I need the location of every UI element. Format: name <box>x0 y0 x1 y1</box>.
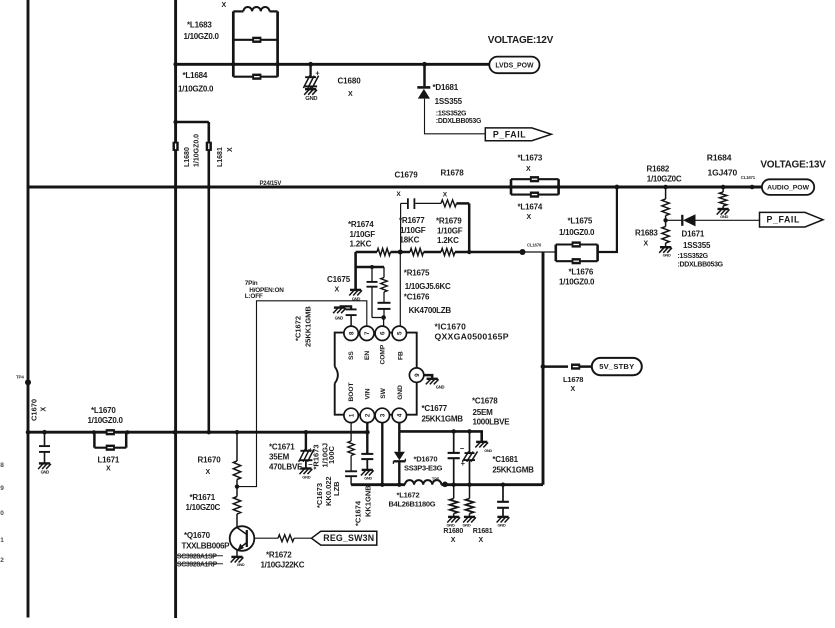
svg-text:1/10GZ0.0: 1/10GZ0.0 <box>559 278 595 287</box>
ground at pin9 <box>427 378 438 380</box>
svg-text:KK1GNB: KK1GNB <box>363 485 372 517</box>
resistor R1675 vertical <box>381 278 387 293</box>
wire Q1670 emitter to ground <box>236 550 238 557</box>
svg-text:X: X <box>443 192 448 199</box>
svg-text:R1684: R1684 <box>707 153 732 163</box>
svg-text:1SS355: 1SS355 <box>683 241 711 250</box>
svg-text:470LBVE: 470LBVE <box>269 463 303 472</box>
resistor R1670 vertical (X) <box>236 432 238 461</box>
svg-text::1SS352G: :1SS352G <box>436 111 467 118</box>
diode D1681 (cathode up) <box>417 86 430 89</box>
ground below C1671 <box>300 467 311 469</box>
ground below C1681 <box>497 516 508 518</box>
node dot 5V_STBY tap <box>541 364 546 369</box>
svg-text:GND: GND <box>302 475 310 480</box>
svg-text:P_FAIL: P_FAIL <box>767 215 800 225</box>
svg-text:25KK1GMB: 25KK1GMB <box>422 414 464 423</box>
svg-text:1/10GF: 1/10GF <box>350 230 376 239</box>
node dot R1670/R1671/EN junction <box>235 484 239 488</box>
svg-text:1/10GZ0C: 1/10GZ0C <box>186 503 221 512</box>
wire stub from x=175.6 to L1680/L1681 ladder top <box>176 121 209 124</box>
wire L1683 block right bar <box>276 11 279 76</box>
ground (slashed) for C1672 <box>334 306 345 308</box>
svg-text:1/10GF: 1/10GF <box>437 227 463 236</box>
wire pin4 node down to D1670 <box>398 431 400 451</box>
ferrite bead L1673 top <box>511 178 559 180</box>
svg-text:X: X <box>526 166 531 173</box>
node junction dot x=616.9 on P24 <box>615 185 620 190</box>
svg-text:5V_STBY: 5V_STBY <box>599 362 634 371</box>
ferrite bead L1681 on x=208.8 rail <box>206 142 212 151</box>
svg-text:TXXLBB006P: TXXLBB006P <box>182 542 231 551</box>
resistor R1674 <box>377 249 391 256</box>
wire C1673 to SW output bus <box>350 477 352 485</box>
svg-text:R1670: R1670 <box>198 456 222 465</box>
svg-text:*R1674: *R1674 <box>348 220 374 229</box>
wire D1671 anode to P_FAIL right <box>696 219 760 221</box>
wire EN control: pin7 up, left, down to R1670/R1671 junction <box>238 301 367 487</box>
svg-text:1: 1 <box>348 413 355 417</box>
ground below R1683 <box>660 246 671 248</box>
ground below R1681 <box>464 516 475 518</box>
svg-text:7: 7 <box>364 331 371 335</box>
capacitor C1673 plates <box>345 470 357 472</box>
svg-text:*R1679: *R1679 <box>436 217 462 226</box>
svg-text:18KC: 18KC <box>400 236 420 245</box>
svg-text:L1681: L1681 <box>217 147 224 167</box>
wire thick corner from R1678 down to feedback line <box>457 202 470 205</box>
diode D1671 (cathode left) <box>681 215 683 226</box>
wire to L1678 bead <box>543 365 568 368</box>
ferrite bead L1675 top <box>556 243 598 245</box>
svg-text:*R1673: *R1673 <box>311 444 320 469</box>
node dots L1673 block <box>509 185 513 189</box>
inductor coil (top of L1683 block) <box>233 10 243 12</box>
svg-text:VIN: VIN <box>364 388 371 399</box>
svg-text:1GJ470: 1GJ470 <box>708 168 738 178</box>
svg-text:1SS355: 1SS355 <box>435 97 463 106</box>
wire thick from feedback line left end down (C1675 stub) <box>354 252 357 289</box>
ground below R1680 <box>448 516 459 518</box>
svg-text:GND: GND <box>463 522 471 527</box>
svg-text:1/10GZ0.0: 1/10GZ0.0 <box>88 416 124 425</box>
svg-text:0: 0 <box>0 510 4 517</box>
wire right bus y=431.4 to GND bend <box>399 431 481 441</box>
net flag LVDS_POW stadium <box>489 57 539 74</box>
wire branch B down from stub <box>383 267 385 278</box>
op-amp/regulator IC U1670 body <box>335 333 417 415</box>
svg-text:C1675: C1675 <box>327 275 351 284</box>
svg-text:P_FAIL: P_FAIL <box>493 129 526 139</box>
wire feedback line continue to CL1670 node <box>455 251 523 254</box>
svg-text::DDXLBB053G: :DDXLBB053G <box>678 262 724 269</box>
svg-text:X: X <box>335 287 340 294</box>
svg-text:*C1672: *C1672 <box>294 316 303 341</box>
wire 12V top horizontal line y=64.3 <box>176 63 491 66</box>
svg-text:X: X <box>396 191 401 198</box>
ground below R1684 <box>718 208 729 210</box>
ferrite bead L1676 bottom <box>556 260 598 262</box>
ground below C1670 <box>39 462 50 464</box>
svg-text:P24/15V: P24/15V <box>260 181 282 187</box>
svg-text:X: X <box>644 241 649 248</box>
svg-text:*C1678: *C1678 <box>472 397 498 406</box>
capacitor C1672 on SS pin8 <box>350 316 352 327</box>
node dot R1684 top <box>721 185 726 190</box>
svg-text:*C1677: *C1677 <box>422 404 448 413</box>
node dots C1677/C1678 bottoms <box>452 483 456 487</box>
ferrite bead L1683 <box>233 39 277 41</box>
svg-text:*C1681: *C1681 <box>492 455 518 464</box>
pin 8 circle <box>344 326 358 340</box>
pin 2 circle <box>360 408 374 422</box>
wire vertical left rail x=28 <box>27 0 30 618</box>
svg-text:1/10GF: 1/10GF <box>400 226 426 235</box>
wire down to D1681 <box>423 64 426 86</box>
svg-text:3: 3 <box>380 413 387 417</box>
svg-text:8: 8 <box>0 462 4 469</box>
capacitor C1670 to ground <box>44 432 46 445</box>
svg-text:GND: GND <box>436 385 445 390</box>
resistor R1683 vertical <box>665 220 667 226</box>
svg-text:*R1672: *R1672 <box>266 551 292 560</box>
pin 6 circle <box>375 326 389 340</box>
svg-text:LZB: LZB <box>332 481 341 496</box>
svg-text:SS3P3-E3G: SS3P3-E3G <box>404 464 443 473</box>
svg-text:1/10GZ0.0: 1/10GZ0.0 <box>184 32 220 41</box>
wire L1675 block left bar <box>554 245 557 262</box>
svg-text:*IC1670: *IC1670 <box>435 322 467 332</box>
svg-text:25KK1GMB: 25KK1GMB <box>304 306 313 347</box>
svg-text:*R1675: *R1675 <box>404 269 430 278</box>
wire thin vertical from branch down to node at (400,252) <box>400 203 402 252</box>
svg-text:2: 2 <box>365 413 372 417</box>
svg-text:2: 2 <box>0 557 4 564</box>
node dot corner at x=469.2 <box>467 250 471 254</box>
svg-text:CL1671: CL1671 <box>741 175 756 180</box>
wire L1670 block right bar <box>125 432 128 448</box>
svg-text:*R1677: *R1677 <box>399 216 425 225</box>
wire pin9 to ground <box>424 375 432 378</box>
node dots where rails cross P24 line <box>173 185 177 189</box>
svg-text:1: 1 <box>0 537 4 544</box>
svg-text:X: X <box>227 147 234 152</box>
resistor R1677 <box>410 249 424 256</box>
svg-text:X: X <box>451 537 456 544</box>
net flag 5V_STBY stadium <box>592 358 642 375</box>
svg-text:25KK1GMB: 25KK1GMB <box>492 466 534 475</box>
svg-text:GND: GND <box>447 522 455 527</box>
capacitor C1674 from VIN to ground <box>366 432 368 453</box>
svg-text:*L1684: *L1684 <box>183 71 208 80</box>
wire branch A down from stub (cap C1676a) <box>371 267 373 281</box>
svg-text:EN: EN <box>364 351 371 360</box>
svg-text:L1680: L1680 <box>184 147 191 167</box>
wire junction to D1671 <box>666 219 682 221</box>
svg-text:SS: SS <box>348 351 355 360</box>
node dot before AUDIO_POW <box>750 185 755 190</box>
svg-text:GND: GND <box>237 563 245 567</box>
svg-text:TP4: TP4 <box>16 375 24 380</box>
transistor Q1670 internals: base bar, collector, emitter arrow <box>246 530 248 547</box>
wire branch A to COMP node <box>372 317 384 319</box>
wire feedback line y=252 left segment <box>356 251 377 254</box>
svg-text:GND: GND <box>305 96 317 102</box>
svg-text:LVDS_POW: LVDS_POW <box>495 62 534 69</box>
wire vertical rail x=175.6 <box>174 0 177 618</box>
svg-text:VOLTAGE:12V: VOLTAGE:12V <box>488 35 554 46</box>
wire output bus right part <box>441 483 543 486</box>
resistor R1682 vertical <box>665 187 667 199</box>
svg-text:CL1670: CL1670 <box>527 243 542 248</box>
svg-text:7Pin: 7Pin <box>245 280 258 287</box>
resistor R1680 vertical (X) <box>453 485 455 499</box>
wire pin3 SW down to output bus <box>381 423 383 485</box>
svg-text:QXXGA0500165P: QXXGA0500165P <box>435 332 509 342</box>
svg-text:FB: FB <box>398 351 405 360</box>
resistor R1678 zigzag <box>441 200 457 207</box>
svg-text:100C: 100C <box>327 445 336 464</box>
svg-text:1.2KC: 1.2KC <box>437 236 459 245</box>
wire pin2 VIN to bus <box>366 423 368 433</box>
wire L1675 block right bar <box>596 245 599 262</box>
node dot on COMP stub <box>370 265 374 269</box>
ferrite bead L1670 on bus <box>106 429 115 435</box>
svg-text:*L1675: *L1675 <box>568 217 593 226</box>
svg-text:GND: GND <box>335 316 344 321</box>
svg-text:VOLTAGE:13V: VOLTAGE:13V <box>760 160 826 171</box>
svg-text:D1671: D1671 <box>682 230 705 239</box>
transistor Q1670 circle <box>230 526 255 551</box>
resistor R1681 vertical (X) <box>469 485 471 499</box>
svg-text:*L1674: *L1674 <box>518 203 543 212</box>
svg-text:6: 6 <box>380 331 387 335</box>
resistor R1672 horizontal <box>278 535 294 542</box>
wire pin4 down to right bus <box>398 423 400 432</box>
svg-text:R1682: R1682 <box>647 165 670 174</box>
svg-text:AUDIO_POW: AUDIO_POW <box>767 185 810 192</box>
svg-text::DDXLBB053G: :DDXLBB053G <box>436 118 482 125</box>
svg-text::SC3928A1RP: :SC3928A1RP <box>175 561 218 568</box>
svg-text:9: 9 <box>414 373 421 377</box>
svg-text:GND: GND <box>397 385 404 400</box>
pin 4 circle <box>392 408 406 422</box>
node dot R1682/R1683/D1671 junction <box>663 218 667 222</box>
svg-text:TP5: TP5 <box>432 477 440 482</box>
svg-text:KK4700LZB: KK4700LZB <box>409 306 452 315</box>
svg-text:5: 5 <box>397 331 404 335</box>
ground (slashed) below C1675 stub <box>350 289 361 291</box>
svg-text:X: X <box>206 469 211 476</box>
svg-text:*D1681: *D1681 <box>433 83 459 92</box>
svg-text:R1680: R1680 <box>443 528 463 535</box>
svg-text:9: 9 <box>0 485 4 492</box>
wire L1673 block left bar <box>510 179 513 194</box>
capacitor C1681 <box>502 485 504 501</box>
resistor R1673 vertical <box>348 441 354 456</box>
wire R1672 to REG_SW3N flag <box>294 537 312 539</box>
svg-text:*R1671: *R1671 <box>190 493 216 502</box>
wire COMP node to pin6 <box>383 318 385 327</box>
svg-text:X: X <box>527 214 532 221</box>
node dots C1677/C1678 tops <box>452 429 456 433</box>
svg-text:X: X <box>571 386 576 393</box>
svg-text:L1678: L1678 <box>563 375 583 384</box>
wire P24/15V horizontal bus y=187 <box>28 186 762 189</box>
resistor R1684 vertical <box>722 187 724 192</box>
svg-text:C1680: C1680 <box>338 77 362 86</box>
svg-text:1/10GZ0.0: 1/10GZ0.0 <box>178 85 214 94</box>
svg-text:X: X <box>41 407 48 412</box>
resistor R1671 vertical <box>236 487 238 497</box>
svg-text:1/10GZ0C: 1/10GZ0C <box>647 175 682 184</box>
svg-text:1/10GJ5.6KC: 1/10GJ5.6KC <box>405 282 451 291</box>
capacitor C1680 (not mounted, slashed) to GND <box>308 62 313 67</box>
node dot FB/C1679 branch <box>398 250 403 255</box>
svg-text:SW: SW <box>380 387 387 398</box>
net flag REG_SW3N <box>312 531 377 545</box>
svg-text:BOOT: BOOT <box>348 382 355 401</box>
capacitor C1679 plates <box>407 198 409 209</box>
svg-text:R1683: R1683 <box>635 229 658 238</box>
wire C1672 top plate lead to ground <box>340 306 352 309</box>
svg-text:GND: GND <box>41 470 50 475</box>
wire pin1 BOOT down across bus <box>350 423 352 441</box>
svg-text:+: + <box>461 459 466 468</box>
wire Q1670 base to R1672 <box>254 537 278 539</box>
svg-text:GND: GND <box>720 214 728 219</box>
svg-text:*L1670: *L1670 <box>91 406 116 415</box>
svg-text:*D1670: *D1670 <box>414 455 438 464</box>
node dots on VIN bus <box>26 430 31 435</box>
node dot C1681 top <box>501 483 505 487</box>
svg-text:*L1672: *L1672 <box>397 491 420 500</box>
svg-text:GND: GND <box>364 477 372 481</box>
wire D1670 cathode to output bus <box>398 461 400 484</box>
wire L1670 block left bar <box>93 432 96 448</box>
svg-text:1000LBVE: 1000LBVE <box>473 417 511 426</box>
svg-text:*Q1670: *Q1670 <box>184 531 211 540</box>
svg-text:−: − <box>460 444 465 453</box>
wire FB from node (400,252) down to pin5 <box>399 252 401 326</box>
svg-text:1/10GZ0.0: 1/10GZ0.0 <box>194 134 201 167</box>
capacitor C1677 <box>453 431 455 452</box>
ground below C1674 <box>362 469 373 471</box>
pin 9 circle <box>409 368 423 382</box>
svg-text:*L1676: *L1676 <box>569 268 594 277</box>
wire C1679-R1678 branch horizontal y=203.4 <box>401 202 407 204</box>
ferrite bead L1680 on x=175.6 rail <box>173 142 179 151</box>
svg-text::1SS352G: :1SS352G <box>678 253 709 260</box>
pin 5 circle <box>392 326 406 340</box>
svg-text:L:OFF: L:OFF <box>245 293 263 300</box>
node junction dots L1683 block on 12V line <box>231 62 235 66</box>
wire from D1681 anode down and right to P_FAIL <box>425 99 485 134</box>
node dot R1682 top <box>663 185 668 190</box>
capacitor C1676 plates <box>378 302 391 304</box>
ferrite bead L1678 <box>571 364 580 370</box>
svg-text:GND: GND <box>498 522 506 527</box>
wire L1673 block right bar <box>557 179 560 194</box>
svg-text:L1671: L1671 <box>98 456 120 465</box>
svg-text:*C1673: *C1673 <box>315 483 324 508</box>
capacitor branch A plates <box>367 281 378 283</box>
svg-text:REG_SW3N: REG_SW3N <box>323 533 374 543</box>
node TP5 dot <box>442 482 448 488</box>
svg-text:C1670: C1670 <box>30 399 39 421</box>
node dots on output bus <box>380 483 384 487</box>
svg-text:COMP: COMP <box>380 344 387 364</box>
svg-text:35EM: 35EM <box>269 453 290 462</box>
svg-text:GND: GND <box>663 252 671 257</box>
svg-text:*C1676: *C1676 <box>404 293 430 302</box>
svg-text:8: 8 <box>348 331 355 335</box>
capacitor C1678 (slashed electrolytic) <box>469 431 471 453</box>
svg-text:1.2KC: 1.2KC <box>350 240 372 249</box>
svg-text:C1679: C1679 <box>395 171 419 180</box>
svg-text:X: X <box>348 91 353 98</box>
svg-text:R1678: R1678 <box>441 169 465 178</box>
wire vertical x=208.8 from ladder top down to VIN bus <box>208 122 211 432</box>
svg-text:*C1674: *C1674 <box>353 500 362 526</box>
wire VIN bus y=432.2 <box>28 431 367 434</box>
node junction on 12V line for D1681 <box>422 62 427 67</box>
svg-text:1/10GZ0.0: 1/10GZ0.0 <box>559 228 595 237</box>
ground below C1680 <box>305 88 316 90</box>
node COMP junction dot <box>381 315 386 320</box>
svg-text:*L1673: *L1673 <box>518 154 543 163</box>
ferrite bead L1684 <box>233 76 277 78</box>
pin 7 circle <box>360 326 374 340</box>
ferrite bead L1671 bottom <box>94 447 126 449</box>
wire drop from P24 down and left to L1675 block <box>598 187 617 252</box>
net flag P_FAIL (upper) <box>485 128 551 141</box>
svg-text:*C1671: *C1671 <box>269 443 295 452</box>
wire L1683 block left bar <box>232 11 235 76</box>
svg-text:1/10GJ22KC: 1/10GJ22KC <box>261 560 305 569</box>
wire COMP stub horizontal y=267 <box>356 266 384 269</box>
svg-text:R1681: R1681 <box>473 528 493 535</box>
svg-text:25EM: 25EM <box>473 408 494 417</box>
node TP4 dot on left rail <box>25 379 31 385</box>
ferrite bead L1674 bottom <box>511 194 559 196</box>
net flag P_FAIL (right) <box>760 212 824 227</box>
svg-text:X: X <box>222 2 227 9</box>
wire thin from CL1670 dot to L1675 block <box>523 251 556 253</box>
svg-text:GND: GND <box>484 449 492 453</box>
pin 3 circle <box>375 408 389 422</box>
pin 1 circle <box>344 408 358 422</box>
resistor R1679 <box>441 249 455 256</box>
capacitor C1671 (slashed electrolytic) to ground <box>305 432 307 451</box>
ground at right bus end <box>476 441 487 443</box>
inductor L1672 coil <box>405 480 441 485</box>
svg-text:4: 4 <box>397 413 404 417</box>
svg-text:X: X <box>106 466 111 473</box>
node CL1670 big dot <box>520 249 526 255</box>
ground below Q1670 emitter <box>231 556 242 558</box>
net flag AUDIO_POW stadium <box>762 179 814 195</box>
svg-text:+: + <box>315 69 320 78</box>
svg-text:B4L26B1180G: B4L26B1180G <box>389 500 436 509</box>
wire SW output bus left part <box>351 483 405 486</box>
svg-text:X: X <box>479 537 484 544</box>
svg-text:*L1683: *L1683 <box>187 21 212 30</box>
diode D1670 (pointing down, schottky) <box>394 452 405 460</box>
wire vertical x=543 from CL1670 line down to output bus <box>542 252 545 485</box>
svg-text::SC3928A1SP: :SC3928A1SP <box>175 553 217 560</box>
